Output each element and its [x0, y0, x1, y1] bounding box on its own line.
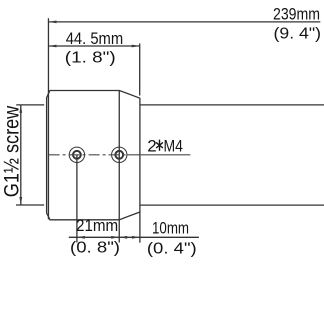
svg-text:M4: M4: [164, 136, 183, 155]
svg-text:(0. 8"): (0. 8"): [70, 240, 120, 257]
arrows 10mm: [119, 236, 127, 239]
svg-text:(9. 4"): (9. 4"): [274, 26, 322, 43]
screw hole 1: [69, 147, 84, 162]
dimension line 239mm: [49, 21, 321, 23]
G1½ extension ticks: [16, 104, 44, 106]
tube bottom edge: [140, 204, 324, 206]
bottom dimension line 21mm/10mm: [69, 236, 199, 238]
arrows G1½: [19, 105, 22, 113]
arrow 239mm left: [49, 21, 57, 24]
svg-text:(1. 8"): (1. 8"): [65, 50, 116, 67]
svg-text:G1½ screw: G1½ screw: [0, 105, 24, 197]
asterisk of 2*M4: [156, 140, 163, 151]
svg-text:10mm: 10mm: [152, 220, 189, 238]
svg-text:2: 2: [147, 136, 156, 155]
arrows 21mm: [77, 236, 85, 239]
screw hole 2: [112, 147, 127, 162]
body outline: [47, 91, 140, 220]
svg-text:44. 5mm: 44. 5mm: [66, 29, 124, 48]
arrowheads: [19, 21, 139, 239]
G1½ dimension line: [20, 105, 22, 205]
dimension line 44.5mm: [49, 45, 140, 47]
screw1 extension line: [76, 155, 78, 243]
svg-text:21mm: 21mm: [76, 217, 118, 235]
thread inner line / left extension line: [47, 18, 49, 219]
right extension line (44.5mm / 10mm): [139, 44, 141, 96]
svg-text:(0. 4"): (0. 4"): [147, 241, 197, 258]
2*M4 leader line: [127, 154, 190, 156]
chamfer tangent line / screw2 extension: [118, 91, 120, 243]
svg-text:239mm: 239mm: [273, 5, 320, 24]
tube top edge: [140, 104, 324, 106]
arrows 44.5mm: [49, 45, 57, 48]
centerline: [49, 154, 191, 156]
